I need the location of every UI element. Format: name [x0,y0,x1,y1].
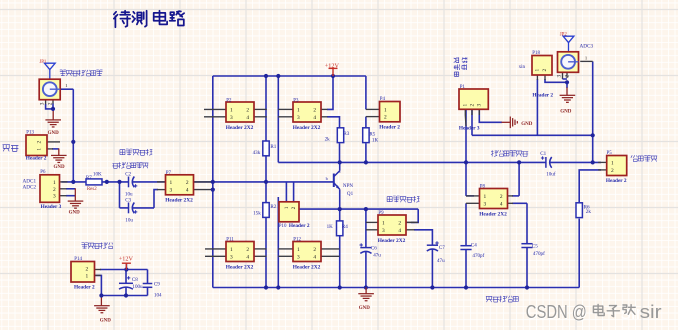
svg-text:15k: 15k [253,210,261,216]
svg-text:sir: sir [640,301,662,322]
svg-text:P7: P7 [166,171,172,176]
svg-text:3: 3 [382,228,385,234]
svg-text:1K: 1K [372,138,379,144]
svg-text:4: 4 [246,254,249,260]
svg-text:Q1: Q1 [347,191,354,197]
svg-text:P5: P5 [607,151,613,156]
svg-text:100u: 100u [132,284,143,290]
svg-text:1: 1 [230,247,233,253]
svg-text:C2: C2 [125,171,131,177]
svg-text:1: 1 [170,180,173,186]
svg-text:P1: P1 [460,85,466,90]
svg-text:Header 2: Header 2 [26,156,47,162]
svg-text:c: c [339,169,341,174]
svg-text:P3: P3 [293,98,299,103]
svg-text:1: 1 [611,160,614,166]
svg-text:2: 2 [86,267,89,273]
svg-text:JP2: JP2 [560,32,568,37]
svg-text:1: 1 [484,194,487,200]
svg-text:2: 2 [48,102,54,105]
svg-text:4: 4 [313,254,316,260]
svg-text:C1: C1 [540,151,546,157]
svg-text:1K: 1K [327,224,334,230]
svg-text:1: 1 [463,104,469,107]
svg-text:C7: C7 [439,245,445,251]
svg-text:47u: 47u [437,258,445,264]
svg-text:GND: GND [48,131,60,136]
svg-text:C8: C8 [132,277,138,283]
svg-text:1: 1 [384,107,387,113]
svg-text:3: 3 [53,194,56,200]
svg-text:10uf: 10uf [546,171,556,178]
svg-text:2: 2 [398,220,401,226]
svg-text:2: 2 [313,107,316,113]
svg-text:Header 2: Header 2 [606,178,627,184]
svg-text:+12V: +12V [119,256,134,263]
svg-text:1: 1 [86,273,89,279]
svg-text:2: 2 [500,194,503,200]
svg-text:1: 1 [297,247,300,253]
svg-text:GND: GND [54,165,66,170]
svg-text:2: 2 [53,187,56,193]
svg-text:4: 4 [246,115,249,121]
svg-text:3: 3 [297,115,300,121]
svg-text:3: 3 [170,188,173,194]
svg-text:P2: P2 [226,98,232,103]
svg-text:Header 2X2: Header 2X2 [293,125,321,131]
svg-text:4: 4 [398,228,401,234]
svg-text:Header 2X2: Header 2X2 [293,264,321,270]
svg-text:10u: 10u [125,217,133,223]
svg-text:2: 2 [186,180,189,186]
svg-text:C3: C3 [125,197,131,203]
svg-text:P4: P4 [380,97,386,102]
svg-text:GND: GND [69,210,81,215]
svg-text:2: 2 [542,69,548,72]
svg-text:2k: 2k [586,209,592,215]
svg-text:GND: GND [100,318,112,323]
svg-text:Header 2X2: Header 2X2 [226,264,254,270]
svg-text:104: 104 [154,292,162,298]
svg-text:10K: 10K [93,171,102,177]
svg-text:P13: P13 [26,130,34,135]
svg-text:43k: 43k [253,150,261,156]
svg-text:ADC3: ADC3 [580,44,594,50]
svg-text:1: 1 [230,107,233,113]
svg-text:470pf: 470pf [472,252,484,259]
svg-text:1: 1 [37,148,43,151]
svg-text:GND: GND [560,109,572,114]
svg-text:Res2: Res2 [87,187,97,192]
svg-text:2k: 2k [325,137,331,143]
svg-text:1: 1 [53,180,56,186]
svg-text:NPN: NPN [343,183,354,189]
svg-text:C5: C5 [532,243,538,249]
svg-text:P11: P11 [226,238,234,243]
svg-text:P6: P6 [40,170,46,175]
svg-text:2: 2 [565,75,571,78]
svg-text:C6: C6 [371,245,377,251]
svg-text:3: 3 [557,75,563,78]
svg-text:47u: 47u [373,252,381,258]
svg-text:P12: P12 [293,238,301,243]
svg-text:C9: C9 [154,281,160,287]
svg-text:3: 3 [297,254,300,260]
svg-text:Header 2X2: Header 2X2 [479,211,507,217]
svg-text:+12V: +12V [325,63,340,70]
svg-text:R3: R3 [343,131,349,137]
svg-text:2: 2 [469,104,475,107]
svg-text:2: 2 [37,141,43,144]
svg-text:Header 2X2: Header 2X2 [165,198,193,204]
svg-text:P18: P18 [532,51,540,56]
svg-text:ADC1: ADC1 [23,178,37,184]
svg-text:Header 3: Header 3 [459,125,480,131]
svg-text:4: 4 [186,188,189,194]
svg-text:2: 2 [313,247,316,253]
svg-text:GND: GND [521,122,533,127]
svg-text:Header 2: Header 2 [74,284,95,290]
svg-text:4: 4 [313,115,316,121]
svg-text:Header 2: Header 2 [379,124,400,130]
svg-text:3: 3 [230,254,233,260]
svg-text:R2: R2 [270,204,276,210]
svg-text:470pf: 470pf [533,250,545,257]
svg-text:R4: R4 [342,224,348,230]
svg-text:P10: P10 [279,224,287,229]
svg-text:2: 2 [246,107,249,113]
svg-text:R7: R7 [86,175,92,181]
svg-text:Header 3: Header 3 [41,204,62,210]
svg-text:2: 2 [246,247,249,253]
svg-text:Header 2X2: Header 2X2 [226,125,254,131]
svg-text:2: 2 [384,115,387,121]
svg-text:4: 4 [500,201,503,207]
svg-text:1: 1 [382,220,385,226]
svg-text:P8: P8 [480,185,486,190]
svg-text:Header 2: Header 2 [532,92,553,98]
svg-text:JP1: JP1 [39,60,47,65]
svg-text:Header 2X2: Header 2X2 [378,238,406,244]
svg-text:2: 2 [291,206,297,209]
svg-text:3: 3 [230,115,233,121]
svg-text:xin: xin [519,64,526,70]
svg-text:1: 1 [535,69,541,72]
svg-text:1: 1 [297,107,300,113]
svg-text:P14: P14 [74,257,82,262]
svg-text:1: 1 [284,206,290,209]
svg-text:3: 3 [477,104,483,107]
svg-text:3: 3 [484,201,487,207]
svg-text:Header 2: Header 2 [289,223,310,229]
svg-text:P9: P9 [378,211,384,216]
svg-text:2: 2 [611,168,614,174]
svg-text:ADC2: ADC2 [23,185,37,191]
svg-text:GND: GND [359,306,371,311]
svg-text:C4: C4 [471,243,477,249]
svg-text:R1: R1 [270,144,276,150]
svg-text:3: 3 [40,102,46,105]
svg-text:CSDN @: CSDN @ [526,301,587,322]
